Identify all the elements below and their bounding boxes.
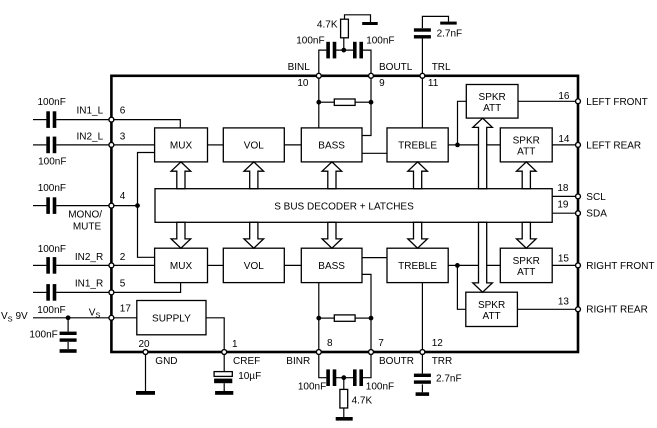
block TREBLE (right channel) (387, 248, 448, 282)
wire top junction to resistor R1 (343, 38, 345, 50)
svg-text:100nF: 100nF (38, 156, 66, 167)
wire pin5 to MUX2 bottom (111, 283, 180, 293)
IC block outline (111, 76, 578, 352)
capacitor 2.7nF TRR (414, 374, 431, 377)
pin 7 (369, 350, 374, 355)
svg-text:9: 9 (379, 78, 385, 89)
svg-text:IN2_R: IN2_R (75, 252, 103, 263)
junction node feedback top left (316, 100, 321, 105)
svg-text:LEFT REAR: LEFT REAR (586, 140, 641, 151)
pin 16 (576, 99, 581, 104)
ground GND pin (136, 391, 155, 395)
arrow S-bus to SPKR ATT1 (473, 118, 493, 189)
svg-text:20: 20 (139, 339, 151, 350)
feedback resistor top (334, 99, 355, 105)
capacitor 100nF VS bypass (60, 332, 77, 335)
wire bottom caps to pin7 (363, 352, 371, 378)
pin 3 (109, 142, 114, 147)
block SPKR ATT right-front (500, 248, 552, 282)
svg-text:4.7K: 4.7K (352, 396, 373, 407)
junction node top caps / R1 (341, 48, 346, 53)
svg-text:SPKR: SPKR (513, 136, 540, 147)
junction node feedback top right (369, 100, 374, 105)
wire bottom caps middle junction (336, 377, 353, 379)
wire bottom feedback resistor left (319, 317, 335, 319)
svg-text:VOL: VOL (244, 141, 264, 152)
wire VOL1 to BASS1 (284, 144, 301, 146)
svg-text:100nF: 100nF (38, 97, 66, 108)
ground TRL cap (440, 22, 457, 25)
block SPKR ATT right-rear (466, 292, 518, 326)
ground VS bypass (60, 349, 77, 353)
svg-text:12: 12 (432, 338, 444, 349)
block S BUS DECODER + LATCHES (155, 189, 552, 223)
block VOL (left channel) (223, 128, 284, 162)
wire MONO/MUTE input stub (33, 205, 46, 207)
ground top resistor (362, 22, 378, 25)
junction node feedback bottom left (316, 316, 321, 321)
svg-text:7: 7 (378, 338, 384, 349)
block SUPPLY (137, 301, 206, 335)
wire MUX1 to VOL1 (208, 144, 224, 146)
pin 18 (576, 194, 581, 199)
wire pin20 GND to ground (145, 352, 147, 391)
wire pin10 to top coupling caps (319, 50, 327, 76)
svg-text:MUX: MUX (170, 141, 193, 152)
svg-text:IN2_L: IN2_L (77, 132, 104, 143)
svg-text:VS 9V: VS 9V (1, 311, 28, 323)
wire pin12 TRR to TREBLE2 bottom (421, 283, 423, 352)
pin 9 (369, 73, 374, 78)
svg-text:100nF: 100nF (298, 381, 326, 392)
arrow S-bus to BASS1 (322, 162, 342, 189)
svg-text:19: 19 (557, 200, 569, 211)
block SPKR ATT left-front (466, 85, 518, 119)
arrow S-bus to SPKR ATT3 (517, 222, 537, 248)
arrow S-bus to TREBLE1 (408, 162, 428, 189)
capacitor 100nF BOUTR (353, 369, 357, 386)
svg-text:100nF: 100nF (37, 305, 65, 316)
wire pin12 to cap C-TRR (421, 352, 423, 374)
svg-text:S BUS DECODER + LATCHES: S BUS DECODER + LATCHES (274, 201, 414, 212)
block SPKR ATT left-rear (500, 128, 552, 162)
block BASS (right channel) (301, 248, 362, 282)
wire node to SPKR ATT3 left (457, 264, 500, 266)
svg-text:11: 11 (428, 78, 439, 89)
ground TRR cap (416, 392, 430, 396)
svg-text:ATT: ATT (517, 147, 535, 158)
svg-text:100nF: 100nF (38, 244, 66, 255)
pin 1 (222, 350, 227, 355)
wire S-bus to pin18 SCL (552, 195, 578, 197)
wire bottom junction to resistor R2 (343, 378, 345, 390)
junction node VS bypass (66, 315, 71, 320)
wire SPKR ATT1 to pin16 (518, 100, 578, 102)
wire IN1_R input stub (33, 291, 46, 293)
svg-text:ATT: ATT (483, 103, 501, 114)
wire pin2 to MUX2 left (111, 264, 154, 266)
wire VOL2 to BASS2 (284, 264, 301, 266)
svg-text:17: 17 (120, 303, 132, 314)
wire IN2_L input stub (33, 144, 46, 146)
svg-text:SCL: SCL (586, 192, 606, 203)
svg-text:4: 4 (120, 191, 126, 202)
junction node MONO/MUTE (135, 203, 140, 208)
wire node to SPKR ATT2 left (458, 144, 501, 146)
wire top caps to pin9 (363, 50, 371, 76)
wire IN2_R input stub (33, 264, 46, 266)
pin 15 (576, 263, 581, 268)
capacitor 10uF CREF (214, 372, 232, 377)
wire VS supply rail (33, 317, 111, 319)
svg-text:MUTE: MUTE (73, 221, 102, 232)
wire MONO branch down to MUX2 (138, 206, 155, 258)
block MUX (left channel) (155, 128, 208, 162)
capacitor 100nF BINR (326, 369, 330, 386)
pin 8 (316, 350, 321, 355)
arrow S-bus to TREBLE2 (408, 222, 428, 248)
wire pin4 MONO/MUTE branch (111, 205, 137, 207)
svg-text:RIGHT FRONT: RIGHT FRONT (586, 261, 654, 272)
wire node to SPKR ATT4 left (457, 265, 465, 309)
svg-text:5: 5 (120, 279, 126, 290)
junction node TREBLE2 output (455, 263, 460, 268)
svg-text:4.7K: 4.7K (317, 20, 338, 31)
arrow S-bus to SPKR ATT4 (473, 222, 493, 292)
wire bottom feedback resistor right (355, 317, 371, 319)
junction node feedback bottom right (369, 316, 374, 321)
capacitor 100nF IN1_L (46, 111, 50, 128)
pin 19 (576, 211, 581, 216)
pin 12 (420, 350, 425, 355)
wire pin10 BINL to BASS1 top (318, 76, 320, 128)
pin 14 (576, 142, 581, 147)
pin 4 (109, 203, 114, 208)
wire pin3 to MUX1 left (111, 144, 154, 146)
arrow S-bus to MUX2 (171, 222, 191, 248)
ground bottom resistor (336, 417, 353, 421)
pin 11 (420, 73, 425, 78)
resistor 4.7K bottom (340, 389, 348, 408)
svg-text:10: 10 (297, 78, 309, 89)
wire top feedback resistor right (355, 101, 371, 103)
pin 20 (143, 350, 148, 355)
wire SPKR ATT3 to pin15 (552, 264, 578, 266)
svg-text:2.7nF: 2.7nF (437, 29, 463, 40)
block TREBLE (left channel) (387, 128, 448, 162)
wire pin6 to MUX1 top (111, 120, 180, 128)
wire SPKR ATT2 to pin14 (552, 144, 578, 146)
wire cap C-CREF to ground (223, 383, 225, 391)
svg-text:2.7nF: 2.7nF (436, 373, 462, 384)
arrow S-bus to VOL1 (244, 162, 264, 189)
wire top caps middle junction (336, 49, 353, 51)
svg-text:TREBLE: TREBLE (398, 261, 437, 272)
pin 17 (109, 315, 114, 320)
block BASS (left channel) (301, 128, 362, 162)
svg-text:IN1_R: IN1_R (75, 279, 103, 290)
svg-text:BINL: BINL (288, 62, 311, 73)
svg-text:ATT: ATT (483, 311, 501, 322)
svg-text:100nF: 100nF (366, 381, 394, 392)
wire VS bypass cap to ground (67, 318, 69, 332)
svg-text:SPKR: SPKR (478, 300, 505, 311)
wire cap C-TRR to ground (421, 384, 423, 392)
wire MUX2 to VOL2 (208, 264, 224, 266)
svg-text:15: 15 (558, 254, 570, 265)
capacitor 100nF BOUTL (353, 42, 357, 59)
wire SUPPLY to pin1 CREF (206, 318, 224, 352)
wire pin7 BOUTR to BASS2 right (362, 274, 371, 352)
block MUX (right channel) (155, 248, 208, 282)
svg-text:BINR: BINR (286, 356, 310, 367)
feedback resistor bottom (334, 315, 355, 321)
svg-text:18: 18 (557, 183, 569, 194)
svg-text:13: 13 (558, 296, 570, 307)
arrow S-bus to MUX1 (171, 162, 191, 189)
resistor 4.7K top (341, 19, 349, 38)
svg-text:RIGHT REAR: RIGHT REAR (586, 305, 648, 316)
svg-text:TREBLE: TREBLE (398, 141, 437, 152)
svg-text:8: 8 (327, 338, 333, 349)
svg-text:3: 3 (120, 132, 126, 143)
wire pin17 to SUPPLY (111, 317, 136, 319)
svg-text:16: 16 (558, 91, 570, 102)
svg-text:ATT: ATT (517, 267, 535, 278)
svg-text:BOUTL: BOUTL (379, 62, 413, 73)
svg-text:BASS: BASS (318, 261, 345, 272)
wire pin11 TRL to TREBLE1 top (421, 76, 423, 128)
svg-text:CREF: CREF (233, 356, 260, 367)
wire BASS1 to TREBLE1 (362, 152, 387, 154)
arrow S-bus to SPKR ATT2 (517, 162, 537, 189)
svg-text:IN1_L: IN1_L (77, 106, 104, 117)
svg-text:BOUTR: BOUTR (379, 356, 414, 367)
pin 5 (109, 290, 114, 295)
wire node to SPKR ATT1 left (458, 101, 467, 145)
wire pin8 to bottom coupling caps (319, 352, 327, 378)
wire resistor R2 to ground (343, 408, 345, 417)
svg-text:LEFT FRONT: LEFT FRONT (586, 97, 647, 108)
wire pin1 to cap C-CREF (223, 352, 225, 372)
pin 13 (576, 307, 581, 312)
capacitor 100nF IN2_L (46, 137, 50, 154)
pin 2 (109, 263, 114, 268)
pin 10 (316, 73, 321, 78)
svg-text:GND: GND (155, 356, 177, 367)
svg-text:100nF: 100nF (38, 183, 66, 194)
svg-text:SPKR: SPKR (479, 92, 506, 103)
wire pin11 to cap C-TRL (421, 38, 423, 76)
svg-text:10µF: 10µF (238, 371, 261, 382)
capacitor 100nF BINL (326, 42, 330, 59)
wire cap C-TRL to ground (422, 16, 448, 28)
pin 6 (109, 117, 114, 122)
wire resistor R1 to ground (345, 15, 371, 22)
wire TREBLE2 output to node (448, 264, 457, 266)
wire MONO branch up to MUX1 (138, 153, 155, 206)
wire top feedback resistor left (319, 101, 335, 103)
wire BASS2 to TREBLE2 (362, 257, 387, 259)
wire SPKR ATT4 to pin13 (517, 308, 578, 310)
svg-text:100nF: 100nF (296, 36, 324, 47)
svg-text:SDA: SDA (586, 209, 607, 220)
svg-text:BASS: BASS (318, 141, 345, 152)
svg-text:6: 6 (120, 106, 126, 117)
capacitor 100nF IN1_R (46, 284, 50, 301)
svg-text:14: 14 (558, 134, 570, 145)
svg-text:2: 2 (120, 252, 126, 263)
svg-text:SPKR: SPKR (513, 256, 540, 267)
svg-text:100nF: 100nF (366, 36, 394, 47)
wire pin9 BOUTL to BASS1 right (362, 76, 371, 136)
svg-text:100nF: 100nF (29, 330, 57, 341)
svg-text:SUPPLY: SUPPLY (152, 313, 191, 324)
svg-text:TRL: TRL (432, 62, 451, 73)
wire TREBLE1 output to node (448, 144, 457, 146)
svg-text:MUX: MUX (170, 261, 193, 272)
svg-text:VOL: VOL (244, 261, 264, 272)
junction node TREBLE1 output (455, 143, 460, 148)
wire S-bus to pin19 SDA (552, 212, 578, 214)
capacitor 2.7nF TRL (414, 28, 431, 31)
ground CREF cap (215, 391, 233, 395)
wire IN1_L input stub (33, 119, 46, 121)
svg-text:MONO/: MONO/ (68, 209, 102, 220)
capacitor 100nF IN2_R (46, 257, 50, 274)
svg-text:1: 1 (232, 339, 238, 350)
arrow S-bus to BASS2 (322, 222, 342, 248)
wire pin8 BINR to BASS2 bottom (318, 283, 320, 352)
arrow S-bus to VOL2 (244, 222, 264, 248)
svg-text:TRR: TRR (432, 356, 453, 367)
capacitor 100nF MONO/MUTE (46, 197, 50, 214)
block VOL (right channel) (223, 248, 284, 282)
junction node bottom caps / R2 (341, 375, 346, 380)
